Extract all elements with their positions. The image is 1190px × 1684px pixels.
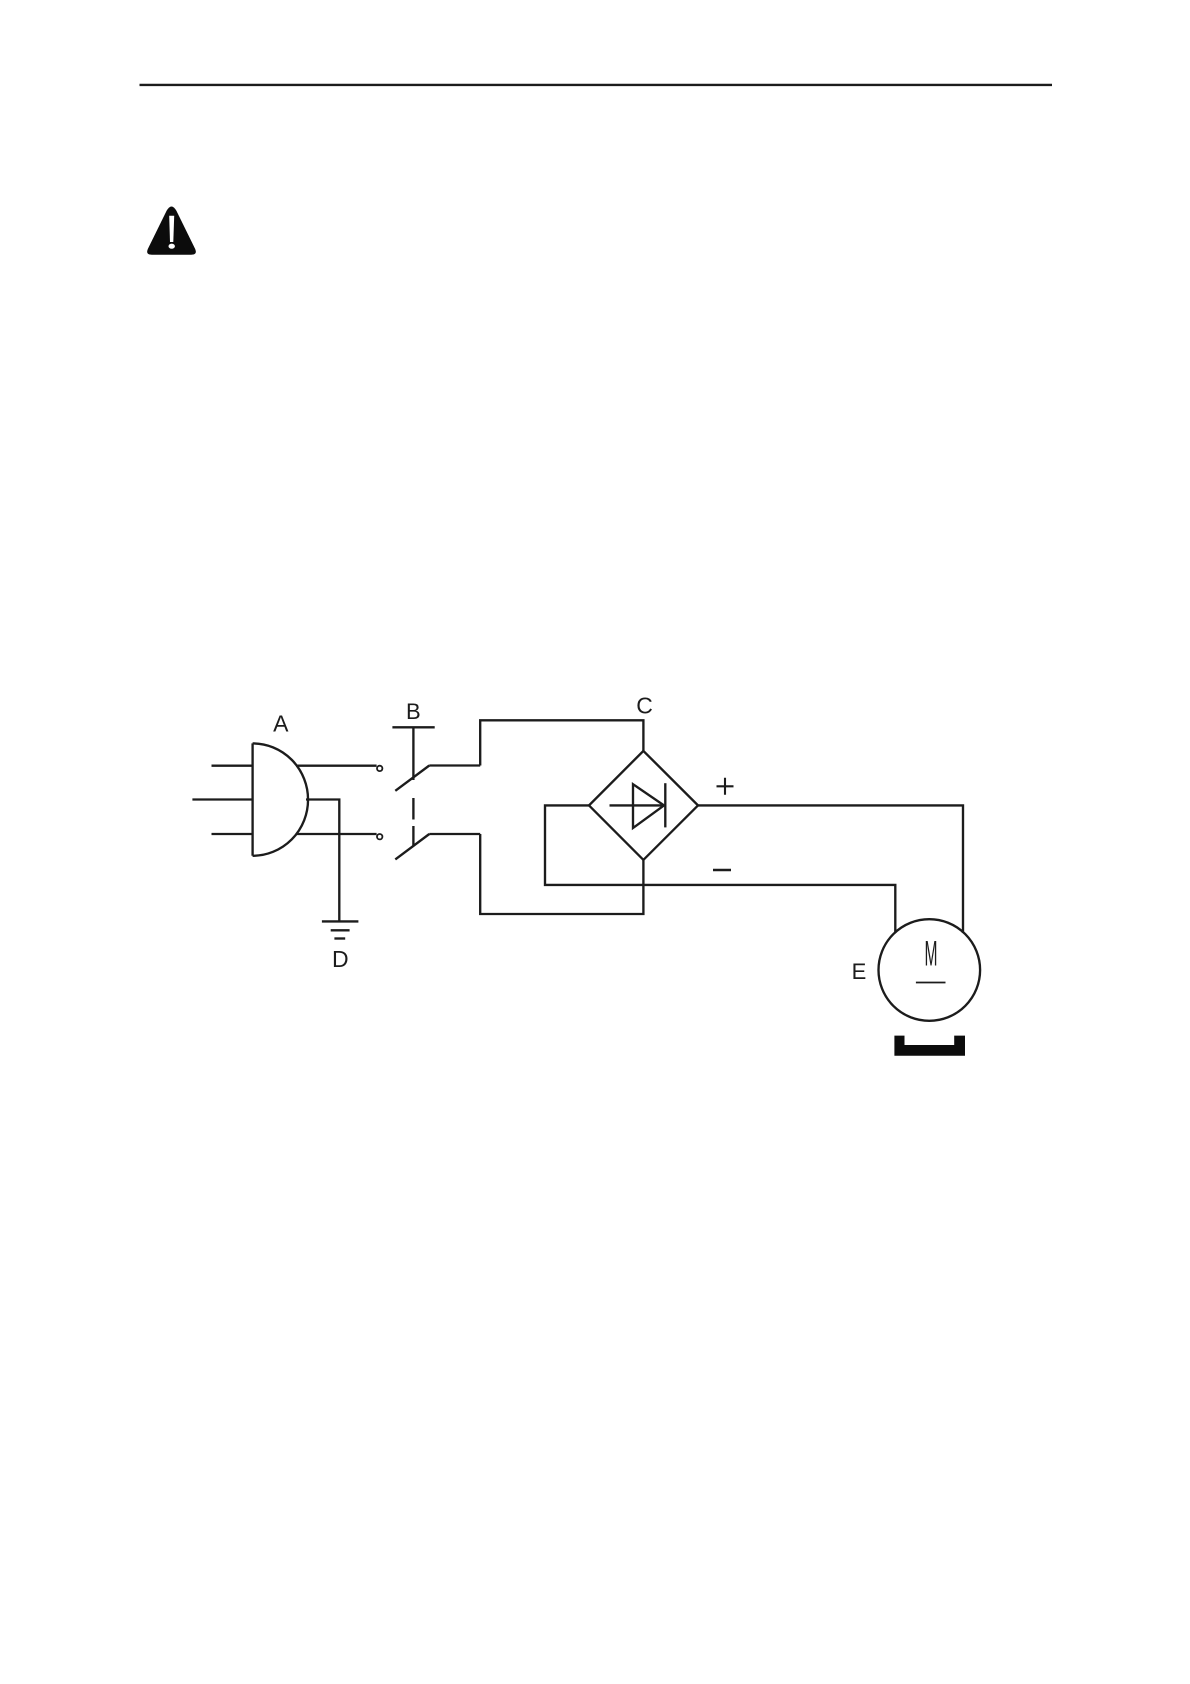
motor underline [916, 982, 946, 984]
switch B upper contact wire [429, 764, 480, 766]
svg-text:M: M [924, 933, 937, 973]
switch B lower contact wire [429, 833, 480, 835]
terminal hook top [377, 766, 382, 771]
switch B top bar [392, 726, 434, 728]
wire rectifier minus to motor [545, 805, 895, 933]
wire plug right pin bottom [296, 833, 377, 835]
switch B linkage dashes [412, 798, 414, 846]
wire plug left pin top [212, 765, 253, 767]
svg-text:C: C [636, 693, 653, 719]
wire switch to rectifier top [480, 720, 643, 765]
warning icon [147, 207, 196, 255]
switch B stem [412, 727, 414, 780]
wire rectifier plus to motor [698, 805, 963, 933]
svg-text:D: D [332, 946, 349, 972]
wire plug left pin middle [192, 798, 252, 800]
diode anode line [610, 804, 665, 806]
ground D bar 3 [334, 937, 345, 939]
switch B lower arm [395, 834, 429, 859]
motor base bracket [894, 1036, 965, 1056]
minus sign [713, 869, 731, 872]
wire earth pin to ground [306, 800, 339, 922]
ground D bar 2 [331, 929, 350, 931]
top rule [140, 84, 1053, 86]
svg-text:B: B [406, 699, 421, 724]
wire plug right pin top [296, 765, 377, 767]
diode cathode bar [664, 783, 666, 827]
switch B upper arm [395, 766, 429, 791]
plus sign [717, 778, 734, 795]
svg-text:A: A [273, 710, 289, 736]
terminal hook bottom [377, 834, 382, 839]
diode triangle [633, 784, 664, 828]
motor E circle [879, 919, 981, 1021]
bridge rectifier C diamond [589, 751, 698, 860]
svg-text:E: E [852, 959, 867, 984]
wire switch to rectifier bottom [480, 834, 643, 914]
wire plug left pin bottom [212, 833, 253, 835]
ground D bar 1 [322, 920, 359, 922]
plug A body [253, 743, 308, 855]
